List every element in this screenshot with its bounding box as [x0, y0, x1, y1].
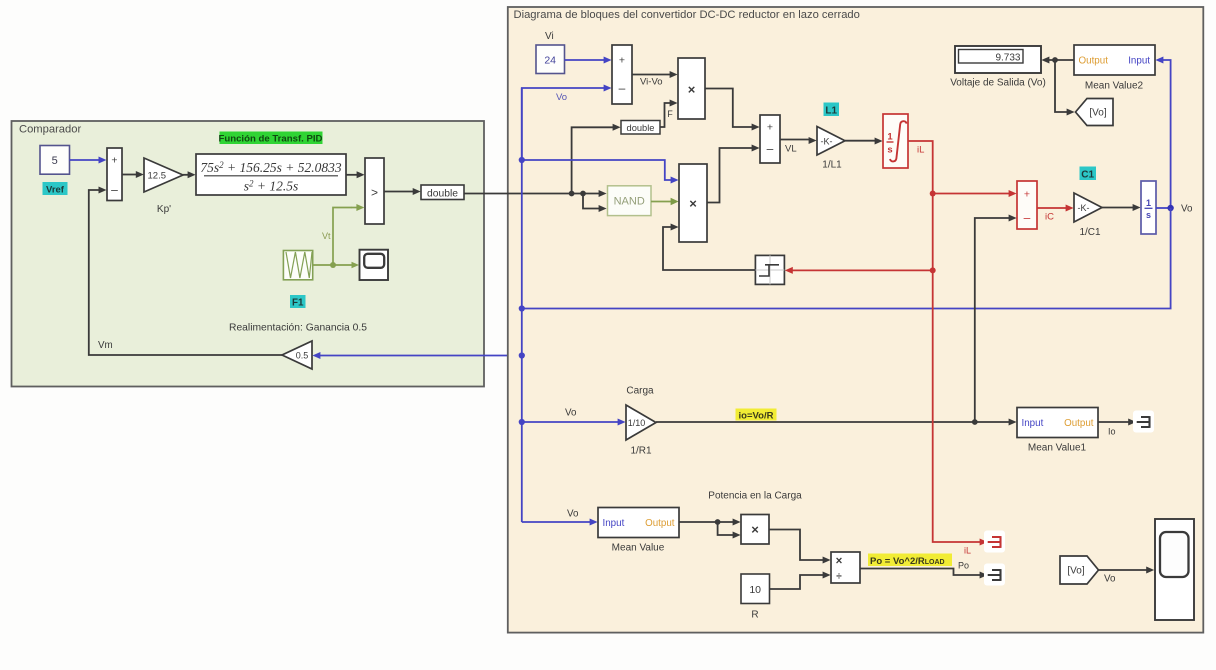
wire blue vertical main [521, 88, 523, 522]
terminator Io [1133, 411, 1154, 433]
svg-text:double: double [427, 188, 458, 199]
label Funcion de Transf. PID [220, 132, 323, 145]
svg-text:Output: Output [1064, 418, 1094, 429]
svg-text:Vi: Vi [545, 31, 554, 42]
svg-text:>: > [371, 186, 378, 200]
gain 1/L1 [817, 127, 845, 156]
svg-text:Función de Transf. PID: Función de Transf. PID [219, 134, 323, 145]
svg-text:×: × [689, 196, 697, 211]
svg-text:Mean Value2: Mean Value2 [1085, 81, 1144, 92]
svg-text:–: – [111, 183, 118, 197]
wire io=Vo/R to Mean Value1 [656, 421, 1010, 423]
sum block (comparator +/-) [107, 148, 122, 201]
label C1 (cyan) [1080, 167, 1097, 181]
wire gain to TF [183, 174, 189, 176]
wire feedback 0.5 to sum minus [89, 190, 282, 355]
svg-text:Diagrama de bloques del conver: Diagrama de bloques del convertidor DC-D… [514, 9, 860, 21]
svg-text:[Vo]: [Vo] [1067, 566, 1084, 577]
wire sum to gain Kp [122, 174, 137, 176]
svg-text:Vo: Vo [565, 408, 577, 419]
svg-text:×: × [688, 82, 696, 97]
terminator iL (red) [984, 531, 1005, 553]
svg-text:24: 24 [544, 54, 556, 66]
wire sumVL to gain 1/L1 [780, 139, 810, 141]
integrator 1/s (red, iL) [883, 114, 908, 168]
scope (small) [360, 250, 389, 280]
svg-text:iL: iL [917, 145, 924, 156]
svg-text:Kp': Kp' [157, 204, 171, 215]
wire gain to integrator1 [845, 140, 876, 142]
gain Kp' 12.5 [144, 158, 183, 192]
wire NAND to product2 (green) [651, 201, 671, 203]
sum block Vi-Vo [612, 45, 632, 104]
node blue junction at 521.8,160 [519, 157, 525, 163]
svg-text:+: + [767, 122, 773, 134]
svg-text:+: + [1024, 189, 1030, 201]
svg-text:5: 5 [52, 155, 58, 167]
gain 1/R1 (Carga) [626, 405, 656, 440]
svg-text:Carga: Carga [626, 386, 654, 397]
node red junction relay [930, 267, 936, 273]
svg-text:–: – [619, 81, 626, 95]
svg-text:Output: Output [1079, 56, 1109, 67]
goto block [Vo] [1076, 99, 1114, 126]
svg-text:Vi-Vo: Vi-Vo [640, 77, 663, 88]
svg-text:Output: Output [645, 518, 675, 529]
node blue junction 309 [519, 305, 525, 311]
wire sum2 to product1 [632, 74, 671, 76]
wire relop to double [384, 191, 414, 193]
wire green up to relop input [333, 208, 352, 266]
svg-text:Input: Input [1128, 56, 1150, 67]
wire blue Vo bus down and across [522, 208, 1171, 309]
wire integrator2 out to blue bus [1156, 207, 1171, 209]
relational operator > [365, 158, 384, 224]
constant block 5 (Vref) [40, 146, 70, 175]
subsystem Mean Value2 [1074, 45, 1155, 75]
node blue junction 422 [519, 419, 525, 425]
gain 0.5 (left pointing) [282, 341, 312, 369]
signal generator F1 (sawtooth) [283, 251, 312, 280]
node red junction [930, 191, 936, 197]
from block [Vo] [1060, 556, 1099, 584]
svg-text:[Vo]: [Vo] [1089, 108, 1106, 119]
svg-text:Vm: Vm [98, 340, 113, 351]
wire red to sum3 plus [933, 193, 1010, 195]
subsystem Mean Value1 [1017, 408, 1098, 438]
wire product2 to sumVL minus [707, 148, 753, 203]
wire gain to integrator2 [1102, 207, 1134, 209]
panel Comparador [12, 121, 485, 387]
svg-text:iC: iC [1045, 212, 1054, 223]
panel Diagrama de bloques [508, 7, 1204, 633]
label L1 (cyan) [824, 103, 840, 117]
node junction [1052, 57, 1058, 63]
node junction at x583 [580, 191, 586, 197]
sum block red (iC) [1017, 181, 1037, 229]
svg-text:F1: F1 [292, 298, 304, 309]
svg-text:0.5: 0.5 [296, 351, 309, 361]
transfer function block PID [196, 154, 346, 195]
svg-text:Mean Value1: Mean Value1 [1028, 443, 1087, 454]
wire junction to goto [Vo] [1055, 60, 1068, 112]
svg-text:Vo: Vo [556, 92, 567, 103]
svg-text:io=Vo/R: io=Vo/R [739, 410, 774, 421]
wire 5 to sum (blue) [70, 159, 100, 161]
svg-text:Input: Input [603, 518, 625, 529]
svg-text:1/L1: 1/L1 [822, 160, 842, 171]
product block 2 [679, 164, 707, 242]
svg-text:1: 1 [887, 132, 893, 143]
wire product3 to divide input1 [769, 530, 824, 561]
label F1 [290, 295, 306, 308]
product block 3 [741, 515, 769, 545]
wire blue Vo up to Mean Value2 input [1163, 60, 1171, 208]
wire blue into 0.5 gain [319, 355, 522, 357]
svg-text:×: × [751, 522, 759, 537]
label Po = Vo^2/Rload (yellow) [868, 554, 952, 567]
wire divide to Po terminator [860, 569, 981, 576]
wire red iL down to terminator [933, 270, 981, 542]
wire product1 to sumVL plus [705, 89, 753, 128]
svg-text:Vo: Vo [1104, 574, 1116, 585]
svg-text:L1: L1 [825, 105, 837, 116]
wire blue to gain 1/R1 [522, 421, 618, 423]
svg-text:Potencia en la Carga: Potencia en la Carga [708, 491, 802, 502]
svg-text:R: R [751, 610, 758, 621]
svg-text:s: s [887, 145, 892, 156]
svg-text:C1: C1 [1081, 169, 1094, 180]
wire integrator1 out (red) [908, 141, 933, 194]
svg-text:1/R1: 1/R1 [630, 446, 652, 457]
wire junction up to doubleR [572, 127, 614, 193]
wire main from double (left panel) to NAND input1 [464, 193, 600, 195]
wire black from io line up to sum3 minus [975, 218, 1010, 422]
svg-text:Vo: Vo [1181, 204, 1193, 215]
svg-text:Vref: Vref [46, 184, 65, 195]
terminator Po [984, 564, 1005, 586]
node junction [715, 519, 721, 525]
gain 1/C1 [1074, 193, 1102, 222]
wire TF to relop [346, 174, 358, 176]
wire 24 to sum2 plus (blue) [565, 59, 605, 61]
integrator 1/s (blue, Vo) [1141, 181, 1156, 234]
svg-text:1: 1 [1146, 198, 1151, 208]
svg-text:Mean Value: Mean Value [612, 543, 665, 554]
svg-text:Input: Input [1022, 418, 1044, 429]
svg-text:10: 10 [749, 584, 761, 596]
wire from [Vo] to scope [1099, 569, 1148, 571]
display block Voltaje de Salida (Vo) [955, 46, 1041, 73]
wire branch to NAND input2 [583, 194, 600, 209]
label Vref [43, 182, 68, 195]
svg-text:VL: VL [785, 144, 797, 155]
svg-text:1/C1: 1/C1 [1079, 227, 1101, 238]
svg-text:÷: ÷ [836, 572, 842, 583]
node junction io [972, 419, 978, 425]
svg-text:Po: Po [958, 561, 969, 571]
subsystem Mean Value [598, 508, 679, 538]
node green junction [330, 262, 336, 268]
svg-text:s: s [1146, 210, 1151, 220]
svg-text:1/10: 1/10 [628, 418, 646, 428]
relay block [755, 255, 784, 284]
svg-text:+: + [619, 55, 625, 67]
wire Mean Value1 to Io terminator [1098, 421, 1129, 423]
svg-text:12.5: 12.5 [148, 171, 167, 182]
svg-text:F: F [667, 109, 673, 119]
divide block [831, 552, 860, 583]
svg-text:-K-: -K- [1078, 203, 1090, 213]
svg-text:Io: Io [1108, 427, 1116, 437]
product block 1 [678, 58, 705, 119]
node blue junction 355 [519, 352, 525, 358]
svg-text:Realimentación: Ganancia 0.5: Realimentación: Ganancia 0.5 [229, 323, 367, 334]
wire 10 to divide input2 [770, 575, 824, 589]
wire blue branch to product2 input1 [522, 160, 671, 180]
sum block VL [760, 115, 780, 163]
svg-text:iL: iL [964, 546, 971, 556]
svg-text:-K-: -K- [821, 136, 833, 146]
svg-text:×: × [836, 556, 843, 568]
wire branch to product3 input2 [718, 522, 734, 535]
wire relay to product2 input3 [663, 227, 755, 270]
wire Mean Value to product3 input1 [679, 521, 734, 523]
svg-text:Voltaje de Salida (Vo): Voltaje de Salida (Vo) [950, 78, 1046, 89]
data type conversion double (right) [621, 121, 660, 135]
wire doubleR to product1 input2 [660, 103, 671, 127]
wire red down to relay branch [932, 194, 934, 271]
svg-text:Comparador: Comparador [19, 124, 81, 136]
wire MeanValue2 to display (leftward) [1048, 59, 1074, 61]
node Vo junction (blue) [1167, 205, 1173, 211]
wire red to relay (leftward) [792, 269, 933, 271]
wire sawtooth to scope and relop (green) [313, 264, 352, 266]
svg-text:double: double [627, 123, 655, 133]
data type conversion double (left) [421, 185, 464, 200]
label io=Vo/R (yellow) [736, 409, 777, 421]
svg-text:Vo: Vo [567, 509, 579, 520]
constant block 10 (R) [741, 574, 770, 604]
svg-text:Vt: Vt [322, 231, 331, 241]
wire blue to Mean Value [522, 521, 590, 523]
logic block NAND [608, 186, 652, 216]
svg-text:NAND: NAND [614, 196, 645, 208]
wire Vo to sum2 minus (blue) [522, 88, 605, 160]
svg-text:+: + [111, 155, 117, 167]
svg-text:–: – [767, 142, 774, 156]
wire sum3 to gain 1/C1 (red) [1037, 207, 1067, 209]
node junction at x571 [569, 191, 575, 197]
svg-text:9.733: 9.733 [995, 52, 1020, 63]
constant block 24 (Vi) [536, 45, 565, 74]
svg-text:–: – [1024, 211, 1031, 225]
scope (large) [1155, 519, 1194, 620]
